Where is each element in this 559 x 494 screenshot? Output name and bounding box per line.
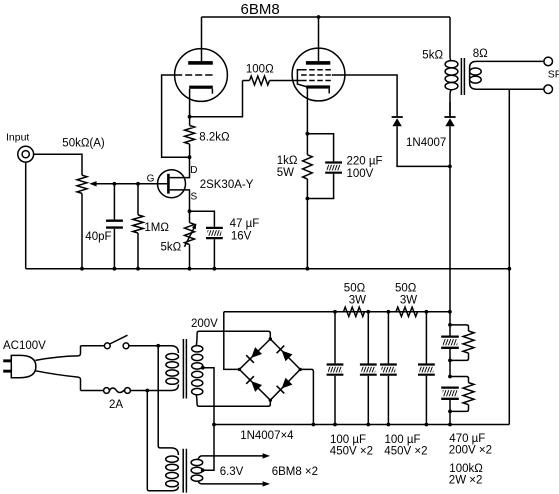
fuse F 2A contacts (104, 388, 110, 394)
svg-text:470 µF: 470 µF (449, 433, 485, 445)
node PSU bus cap4 (425, 423, 429, 427)
wire right ground drop (508, 89, 510, 424)
transformer T1 core (461, 58, 464, 95)
bridge diode bottom-left (251, 381, 262, 392)
diode D1 1N4007 (392, 116, 403, 118)
svg-text:220 µF: 220 µF (347, 155, 383, 167)
wire rail to OPT primary top (450, 17, 452, 61)
wire 200V bottom to bridge (196, 394, 270, 406)
wire bridge + riser (224, 312, 240, 370)
resistor 1M-ohm (137, 184, 139, 215)
bridge diode bottom-right (282, 378, 293, 389)
capacitor 100uF 450V #4 (425, 312, 427, 364)
svg-text:100Ω: 100Ω (246, 64, 274, 76)
wire fuse to transformer (130, 385, 178, 391)
pentode grid g1 (dashed) (301, 80, 331, 82)
svg-text:5kΩ: 5kΩ (161, 242, 182, 254)
wire bridge - to PSU bus (300, 369, 313, 424)
wire pentode cathode to ground bus (306, 199, 308, 269)
node triode cathode junction (188, 115, 192, 119)
capacitor 40pF (113, 184, 115, 220)
wire switch to transformer (129, 346, 179, 353)
svg-text:3W: 3W (400, 294, 417, 306)
node column pair1 bottom (448, 359, 452, 363)
capacitor 100uF 450V #2 (367, 312, 369, 364)
transformer T2 secondary 200V winding (192, 346, 203, 395)
resistor 1k-ohm 5W (306, 134, 308, 155)
svg-text:6.3V: 6.3V (220, 466, 244, 478)
pentode cathode (306, 85, 330, 88)
svg-text:450V ×2: 450V ×2 (330, 446, 373, 458)
wire pentode g2 lead (332, 75, 397, 116)
svg-text:2A: 2A (109, 399, 123, 411)
svg-text:AC100V: AC100V (3, 340, 46, 352)
resistor 50-ohm 3W second (396, 307, 418, 316)
node rail right column (448, 310, 452, 314)
svg-text:47 µF: 47 µF (230, 218, 260, 230)
node 1M-ohm junction (136, 182, 140, 186)
node diode junction (448, 165, 452, 169)
wire to fuse (81, 390, 104, 392)
svg-text:50kΩ(A): 50kΩ(A) (62, 138, 105, 150)
variable resistor arrow (184, 227, 194, 246)
wire Q1 source lead (170, 190, 190, 211)
pentode g3-cathode tie bracket (297, 70, 306, 87)
bridge diode top-right (282, 351, 293, 362)
node bridge right corner (299, 368, 302, 371)
connector SP jack bottom (544, 85, 553, 94)
transformer T2 core (183, 339, 186, 399)
svg-text:8.2kΩ: 8.2kΩ (199, 132, 230, 144)
svg-text:1MΩ: 1MΩ (144, 222, 169, 234)
wire triode plate lead (201, 17, 203, 61)
wire ground bus (26, 268, 510, 270)
node ground bus 1M (136, 267, 140, 271)
transistor Q1 2SK30A-Y JFET envelope (158, 170, 186, 198)
connector AC plug body (11, 355, 36, 377)
svg-text:16V: 16V (231, 231, 252, 243)
triode grid (dashed) (175, 74, 212, 76)
node bridge bottom corner (269, 399, 272, 402)
node PSU bus cap3 (387, 423, 391, 427)
resistor 8.2k-ohm (189, 117, 191, 126)
node rail cap3 (387, 310, 391, 314)
node ground bus pentode cathode (306, 267, 310, 271)
svg-text:SP: SP (548, 69, 559, 81)
triode plate (188, 61, 213, 65)
capacitor 220uF 100V (307, 134, 333, 162)
pentode plate (306, 61, 330, 65)
node 200V winding tap (201, 366, 205, 370)
wire 200V top to bridge (196, 331, 270, 346)
wire AC cord upper (36, 346, 81, 361)
node ground bus 5k (188, 267, 192, 271)
AC plug prong upper (3, 359, 11, 362)
node rail cap2 (366, 310, 370, 314)
resistor 100k-ohm 2W upper (450, 325, 469, 331)
potentiometer wiper arrow (96, 183, 167, 185)
tube triode V1 (6BM8 triode) envelope (175, 49, 228, 102)
svg-text:S: S (191, 192, 198, 203)
node PSU bus tap junction (212, 423, 216, 427)
switch SW lever (110, 335, 128, 344)
wire B+ top rail (202, 16, 451, 18)
node PSU bus cap1 (333, 423, 337, 427)
capacitor 100uF 450V #3 (387, 312, 389, 364)
wire 6.3V bottom lead (198, 481, 263, 484)
node PSU bus bridge-minus (312, 423, 316, 427)
connector SP jack top (544, 57, 553, 66)
transformer T3 secondary 6.3V winding (191, 459, 203, 481)
node ground bus 47uF (213, 267, 217, 271)
svg-text:2W ×2: 2W ×2 (449, 474, 483, 486)
node ground bus pot (80, 267, 84, 271)
diode D2 1N4007 (444, 116, 455, 118)
transformer T1 OPT primary winding (445, 61, 458, 90)
transformer T3 core (183, 449, 186, 493)
wire fuse branch to heater transformer (147, 391, 178, 491)
transformer T3 primary winding (166, 456, 179, 487)
svg-text:50Ω: 50Ω (395, 282, 417, 294)
svg-text:40pF: 40pF (85, 231, 111, 243)
connector input jack (18, 146, 34, 162)
heater arrow top (263, 453, 270, 458)
node 6.3V winding center tap (201, 468, 205, 472)
wire D2 anode down (449, 126, 451, 166)
svg-text:100V: 100V (347, 168, 374, 180)
transistor Q1 channel bar (167, 174, 170, 194)
node rail cap1 (333, 310, 337, 314)
svg-text:100 µF: 100 µF (385, 434, 421, 446)
transformer T2 primary winding (166, 354, 179, 385)
resistor 50-ohm 3W first (344, 307, 365, 316)
svg-text:5kΩ: 5kΩ (422, 50, 443, 62)
node bridge top corner (269, 337, 272, 340)
wire pentode cathode lead (306, 89, 308, 134)
node pentode cathode junction bottom (306, 197, 310, 201)
AC plug prong lower (3, 370, 11, 373)
resistor 100k-ohm 2W lower (450, 377, 469, 383)
triode cathode (189, 86, 213, 89)
bridge rectifier diamond (239, 339, 300, 400)
node 40pF junction (113, 182, 117, 186)
capacitor 470uF 200V upper (449, 312, 451, 336)
svg-text:5W: 5W (277, 167, 294, 179)
wire triode grid to FET drain node (162, 75, 190, 157)
heater arrow bottom (263, 481, 270, 486)
switch SW contacts (104, 343, 110, 349)
node switch line branch (156, 344, 160, 348)
node Q1 source junction (188, 209, 192, 213)
svg-text:50Ω: 50Ω (344, 282, 366, 294)
wire to switch (81, 345, 105, 347)
pentode grid g3 (dashed) (301, 69, 331, 71)
resistor 100-ohm grid stopper (243, 80, 250, 82)
wire tap to ground bus and heater CT (203, 368, 214, 471)
svg-text:1N4007×4: 1N4007×4 (240, 430, 294, 442)
svg-text:1N4007: 1N4007 (406, 137, 446, 149)
svg-text:200V: 200V (191, 318, 218, 330)
potentiometer 50k-ohm(A) volume (77, 175, 87, 193)
tube pentode V1 (6BM8 pentode) envelope (292, 48, 345, 101)
wire Q1 drain lead (170, 157, 190, 177)
wire switch branch to heater transformer (158, 346, 178, 455)
wire triode cathode lead (189, 89, 191, 117)
svg-text:100kΩ: 100kΩ (449, 463, 483, 475)
resistor 5k-ohm variable (source) (189, 211, 191, 222)
svg-text:8Ω: 8Ω (473, 48, 488, 60)
node pentode cathode junction top (306, 132, 310, 136)
node column pair2 top (448, 375, 452, 379)
node PSU bus cap2 (366, 423, 370, 427)
wire pentode plate lead (318, 17, 320, 61)
bridge diode top-left (251, 347, 262, 358)
svg-text:D: D (190, 165, 197, 176)
node column pair2 bottom (448, 410, 452, 414)
svg-text:G: G (147, 173, 155, 184)
wire diode junction to B+ rail (449, 166, 451, 311)
capacitor 47uF 16V (190, 211, 215, 227)
wire cathode node to 100ohm riser (190, 81, 243, 117)
node PSU bus right column (448, 423, 452, 427)
node pentode plate junction (317, 15, 321, 19)
svg-text:100 µF: 100 µF (330, 434, 366, 446)
wire OPT primary bottom lead (450, 90, 452, 117)
wire D2 cathode to OPT primary (449, 102, 451, 116)
node fuse line branch (145, 389, 149, 393)
wire B+ rail (224, 311, 450, 313)
pentode grid g2 (dashed) (301, 74, 331, 76)
svg-text:450V ×2: 450V ×2 (384, 446, 427, 458)
svg-text:1kΩ: 1kΩ (277, 155, 298, 167)
node FET drain junction (188, 155, 192, 159)
wire 6.3V top lead (198, 456, 263, 460)
node rail cap4 (425, 310, 429, 314)
capacitor 100uF 450V #1 (334, 312, 336, 364)
capacitor 470uF 200V lower (441, 386, 459, 388)
fuse F 2A element (109, 388, 124, 393)
node bridge left corner (238, 368, 241, 371)
wire input jack to volume pot (34, 154, 82, 175)
svg-text:3W: 3W (349, 294, 366, 306)
svg-text:Input: Input (6, 132, 29, 144)
svg-text:2SK30A-Y: 2SK30A-Y (200, 179, 254, 191)
wire input jack ground drop (25, 162, 27, 269)
node ground bus 40pF (113, 267, 117, 271)
wire OPT secondary C-bracket to SP jacks (470, 61, 544, 89)
svg-text:200V ×2: 200V ×2 (449, 445, 492, 457)
node ground bus right tee (507, 267, 511, 271)
svg-text:6BM8 ×2: 6BM8 ×2 (272, 466, 318, 478)
wire PSU bottom bus (214, 424, 509, 426)
node column pair1 top (448, 323, 452, 327)
wire D1 anode to junction (397, 126, 450, 166)
transformer T1 OPT secondary winding (470, 68, 482, 83)
svg-text:6BM8: 6BM8 (241, 1, 280, 18)
wire AC cord lower (36, 371, 81, 391)
